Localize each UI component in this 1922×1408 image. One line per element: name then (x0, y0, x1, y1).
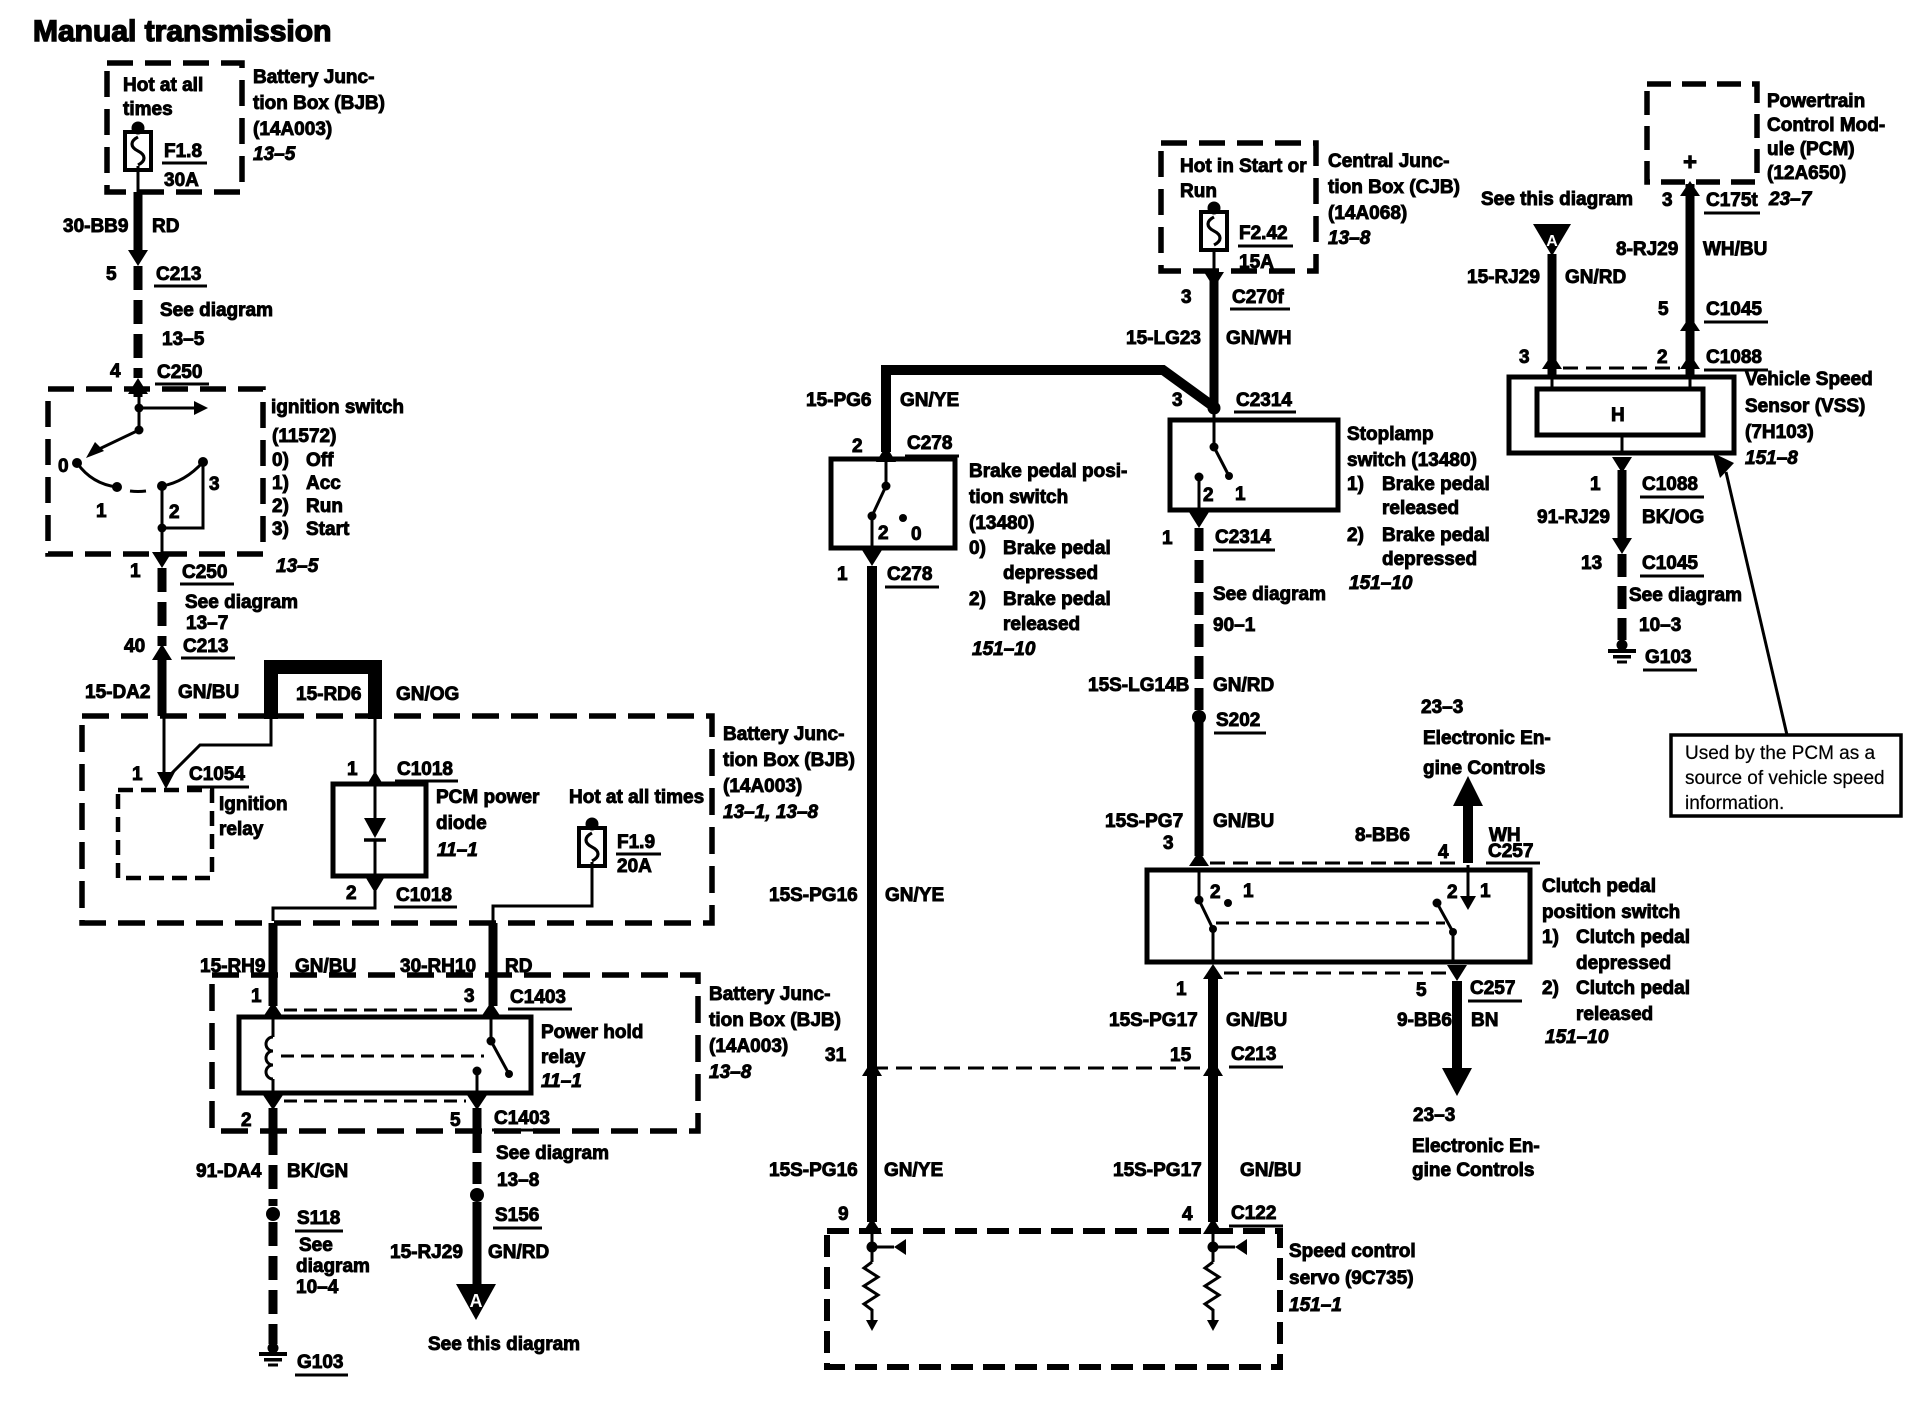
wire fuse lead (137, 166, 140, 192)
svg-text:Power hold: Power hold (541, 1022, 643, 1043)
node A off-page triangle (1533, 224, 1571, 256)
wire fuse F1.9 out to 30-RH10 (493, 862, 592, 921)
svg-text:C278: C278 (887, 564, 932, 585)
svg-text:C122: C122 (1231, 1203, 1276, 1224)
svg-text:Ignition: Ignition (219, 794, 288, 815)
svg-text:+: + (1683, 149, 1697, 176)
svg-text:GN/BU: GN/BU (1240, 1160, 1301, 1181)
wire 9-BB6 BN with down arrow (1452, 981, 1462, 1070)
wire 15-RH9 GN/BU thick (269, 923, 278, 1006)
connector C1403 pin 3 arrow (481, 1002, 501, 1017)
svg-text:15-RJ29: 15-RJ29 (1467, 267, 1540, 288)
svg-text:Start: Start (306, 519, 350, 540)
svg-text:switch (13480): switch (13480) (1347, 450, 1477, 471)
svg-text:15S-PG16: 15S-PG16 (769, 1160, 858, 1181)
wire 15-DA2 into relay coil (163, 716, 166, 778)
svg-text:3: 3 (464, 986, 475, 1007)
wire 15S-PG7 GN/BU (1195, 717, 1204, 856)
svg-text:position switch: position switch (1542, 902, 1680, 923)
svg-text:11–1: 11–1 (437, 840, 478, 861)
svg-text:13–8: 13–8 (709, 1062, 752, 1083)
node contact 3 (198, 457, 208, 467)
svg-text:5: 5 (450, 1110, 461, 1131)
svg-text:released: released (1576, 1004, 1653, 1025)
svg-text:GN/RD: GN/RD (1565, 267, 1626, 288)
svg-text:C2314: C2314 (1236, 390, 1292, 411)
svg-text:GN/RD: GN/RD (1213, 675, 1274, 696)
svg-text:3: 3 (1181, 287, 1192, 308)
note used by the PCM box (1671, 735, 1901, 816)
svg-text:GN/OG: GN/OG (396, 684, 459, 705)
svg-text:S118: S118 (297, 1208, 340, 1229)
svg-text:Speed control: Speed control (1289, 1241, 1416, 1262)
svg-text:1: 1 (132, 764, 143, 785)
svg-text:1: 1 (1480, 881, 1491, 902)
node contact 2 (157, 481, 167, 491)
svg-text:5: 5 (106, 264, 117, 285)
svg-text:released: released (1382, 498, 1459, 519)
wire arc dash 1-2 (130, 490, 146, 494)
wire arc 2 to 3 (162, 462, 203, 486)
svg-text:Electronic En-: Electronic En- (1412, 1136, 1540, 1157)
svg-text:2: 2 (852, 436, 863, 457)
wire dashed link pins 1-3 (284, 1009, 478, 1012)
connector C250 pin 4 arrow (128, 378, 148, 394)
svg-text:0: 0 (58, 456, 69, 477)
svg-text:Used by the PCM as a: Used by the PCM as a (1685, 743, 1876, 764)
connector C175t pin 3 arrow (1680, 181, 1700, 196)
wire diode out to 15-RH9 (273, 891, 375, 921)
wire dashed actuation line (281, 1055, 484, 1058)
svg-text:GN/YE: GN/YE (885, 885, 944, 906)
svg-text:2: 2 (878, 523, 889, 544)
svg-text:15-LG23: 15-LG23 (1126, 328, 1201, 349)
node contact 1 (112, 482, 122, 492)
svg-text:9-BB6: 9-BB6 (1397, 1010, 1452, 1031)
svg-text:See diagram: See diagram (496, 1143, 609, 1164)
svg-text:gine Controls: gine Controls (1423, 758, 1545, 779)
svg-text:BN: BN (1471, 1010, 1498, 1031)
powertrain control module PCM dashed box (1647, 84, 1757, 182)
svg-text:15S-PG16: 15S-PG16 (769, 885, 858, 906)
wire 8-BB6 WH with up arrow (1463, 804, 1473, 863)
svg-text:8-RJ29: 8-RJ29 (1616, 239, 1678, 260)
svg-text:15S-LG14B: 15S-LG14B (1088, 675, 1189, 696)
svg-text:See this diagram: See this diagram (428, 1334, 580, 1355)
svg-text:S202: S202 (1216, 710, 1260, 731)
svg-text:Central Junc-: Central Junc- (1328, 151, 1449, 172)
svg-text:23–7: 23–7 (1768, 189, 1813, 210)
svg-text:C1088: C1088 (1642, 474, 1698, 495)
connector C250 pin 1 arrow (152, 552, 172, 568)
relay K ignition relay dashed box (118, 790, 212, 878)
wire to G103 dashed (1618, 554, 1627, 640)
node junction C2314 pin 3 (1208, 402, 1221, 415)
svg-text:1: 1 (130, 561, 141, 582)
node contact 0 (72, 458, 82, 468)
svg-text:4: 4 (1182, 1204, 1193, 1225)
connector C257 pin 1 arrow (1203, 964, 1223, 979)
wire dashed C250 to C213 (158, 568, 167, 646)
svg-text:C1045: C1045 (1642, 553, 1698, 574)
svg-text:15: 15 (1170, 1045, 1192, 1066)
wire contact 2 down (161, 486, 164, 528)
svg-text:2: 2 (346, 883, 357, 904)
battery junction box BJB (Hot at all times) dashed box (107, 63, 242, 192)
svg-text:depressed: depressed (1576, 953, 1671, 974)
wire ignition switch branch arrow right (139, 407, 194, 410)
svg-text:3: 3 (209, 474, 220, 495)
wire 15-LG23 GN/WH (1210, 271, 1219, 406)
svg-text:C213: C213 (183, 636, 228, 657)
svg-text:151–8: 151–8 (1745, 448, 1798, 469)
svg-text:(14A003): (14A003) (253, 119, 332, 140)
splice S202 (1192, 710, 1206, 724)
svg-text:S156: S156 (495, 1205, 539, 1226)
fuse F1.9 20A (579, 818, 605, 867)
svg-text:C1018: C1018 (397, 759, 453, 780)
svg-text:diode: diode (436, 813, 487, 834)
svg-text:3: 3 (1519, 347, 1530, 368)
svg-text:(14A003): (14A003) (709, 1036, 788, 1057)
svg-text:1): 1) (1542, 927, 1559, 948)
svg-text:Control Mod-: Control Mod- (1767, 115, 1885, 136)
resistor right servo coil (1205, 1262, 1219, 1322)
svg-text:(14A068): (14A068) (1328, 203, 1407, 224)
svg-text:Brake pedal posi-: Brake pedal posi- (969, 461, 1127, 482)
svg-text:13–5: 13–5 (162, 329, 205, 350)
wire switch output (161, 528, 164, 554)
connector C270f pin 3 arrow (1204, 272, 1224, 288)
svg-text:Manual transmission: Manual transmission (33, 15, 331, 48)
svg-text:15-RD6: 15-RD6 (296, 684, 361, 705)
svg-text:Sensor (VSS): Sensor (VSS) (1745, 396, 1865, 417)
svg-text:2: 2 (1203, 485, 1214, 506)
svg-text:5: 5 (1658, 299, 1669, 320)
wire from 15-RD6 leg to C1054 (167, 719, 271, 778)
connector C257 pin 5 arrow (1447, 965, 1467, 981)
svg-text:3: 3 (1163, 833, 1174, 854)
svg-text:1): 1) (272, 473, 289, 494)
ignition switch (11572) dashed box (48, 389, 263, 554)
svg-text:91-DA4: 91-DA4 (196, 1161, 262, 1182)
svg-text:15S-PG7: 15S-PG7 (1105, 811, 1183, 832)
node A off-page arrow (456, 1284, 496, 1320)
svg-text:diagram: diagram (296, 1256, 370, 1277)
wire dashed link pins 2-5 (284, 1100, 466, 1103)
svg-text:91-RJ29: 91-RJ29 (1537, 507, 1610, 528)
servo left solenoid branch (871, 1234, 874, 1262)
svg-text:2): 2) (1542, 978, 1559, 999)
svg-text:C2314: C2314 (1215, 527, 1271, 548)
svg-text:See diagram: See diagram (185, 592, 298, 613)
svg-text:1: 1 (1235, 484, 1246, 505)
svg-text:5: 5 (1416, 980, 1427, 1001)
svg-text:See diagram: See diagram (1213, 584, 1326, 605)
svg-text:tion Box (BJB): tion Box (BJB) (253, 93, 385, 114)
battery junction box BJB (14A003) 13-1,13-8 dashed box (82, 716, 712, 923)
svg-text:3: 3 (1662, 190, 1673, 211)
svg-text:4: 4 (1438, 842, 1449, 863)
svg-text:GN/RD: GN/RD (488, 1242, 549, 1263)
connector C278 pin 2 arrow (876, 446, 896, 462)
svg-text:90–1: 90–1 (1213, 615, 1256, 636)
wire 30-BB9 RD thick (134, 192, 143, 252)
wire 91-RJ29 BK/OG (1618, 470, 1627, 538)
ground G103 right (1608, 640, 1636, 664)
svg-text:1: 1 (837, 564, 848, 585)
svg-text:13–5: 13–5 (253, 144, 296, 165)
svg-text:(14A003): (14A003) (723, 776, 802, 797)
svg-text:Hot at all: Hot at all (123, 75, 203, 96)
wire 15-DA2 GN/BU (158, 658, 167, 716)
svg-text:151–10: 151–10 (972, 639, 1036, 660)
svg-text:11–1: 11–1 (541, 1071, 582, 1092)
svg-text:3): 3) (272, 519, 289, 540)
svg-text:151–10: 151–10 (1545, 1027, 1609, 1048)
svg-text:9: 9 (838, 1204, 849, 1225)
connector C213 pin 40 arrow (152, 644, 172, 660)
svg-text:40: 40 (124, 636, 145, 657)
splice S118 (266, 1207, 280, 1221)
svg-text:Brake pedal: Brake pedal (1382, 525, 1490, 546)
wire ignition switch feed (138, 392, 141, 430)
fuse F1.8 30A (125, 122, 151, 171)
svg-text:relay: relay (541, 1047, 586, 1068)
svg-text:C257: C257 (1488, 841, 1533, 862)
svg-text:WH/BU: WH/BU (1703, 239, 1767, 260)
ground G103 (259, 1343, 287, 1367)
connector C1045 pin 13 arrow (1612, 538, 1632, 554)
svg-text:15S-PG17: 15S-PG17 (1109, 1010, 1198, 1031)
wire 15S-PG16 GN/YE long vertical (867, 566, 877, 1222)
wire 91-DA4 BK/GN dashed (269, 1131, 278, 1206)
svg-text:15A: 15A (1239, 252, 1274, 273)
svg-text:Run: Run (1180, 181, 1217, 202)
wire to diode pin 1 (374, 719, 377, 784)
connector C278 pin 1 arrow (862, 550, 882, 566)
svg-text:GN/BU: GN/BU (178, 682, 239, 703)
svg-text:23–3: 23–3 (1413, 1105, 1455, 1126)
connector C213 pin 5 arrow (128, 250, 148, 266)
svg-text:See diagram: See diagram (160, 300, 273, 321)
svg-text:13–7: 13–7 (186, 613, 228, 634)
svg-text:tion switch: tion switch (969, 487, 1068, 508)
svg-text:0): 0) (969, 538, 986, 559)
svg-text:C213: C213 (156, 264, 201, 285)
wire dashed link C1088 pins (1563, 367, 1680, 370)
switch brake pedal position switch box (831, 459, 955, 548)
svg-text:RD: RD (152, 216, 179, 237)
svg-text:0: 0 (911, 524, 922, 545)
svg-text:tion Box (BJB): tion Box (BJB) (709, 1010, 841, 1031)
svg-text:F2.42: F2.42 (1239, 223, 1288, 244)
svg-text:0): 0) (272, 450, 289, 471)
wire note pointer arrow to VSS (1726, 472, 1787, 735)
coil of power hold relay (272, 1017, 275, 1037)
svg-text:C1088: C1088 (1706, 347, 1762, 368)
svg-text:Off: Off (306, 450, 334, 471)
svg-text:C257: C257 (1470, 978, 1515, 999)
svg-text:Clutch pedal: Clutch pedal (1542, 876, 1656, 897)
svg-text:servo (9C735): servo (9C735) (1289, 1268, 1414, 1289)
svg-text:times: times (123, 99, 173, 120)
svg-text:F1.8: F1.8 (164, 141, 202, 162)
svg-text:Run: Run (306, 496, 343, 517)
wire VSS output (1621, 435, 1624, 455)
wire 15S-PG17 GN/BU (1208, 979, 1218, 1222)
svg-text:C1403: C1403 (494, 1108, 550, 1129)
svg-text:8-BB6: 8-BB6 (1355, 825, 1410, 846)
svg-text:(7H103): (7H103) (1745, 422, 1814, 443)
connector C1018 pin 1 arrow (366, 771, 384, 786)
svg-text:23–3: 23–3 (1421, 697, 1463, 718)
svg-text:2): 2) (272, 496, 289, 517)
svg-text:30A: 30A (164, 170, 199, 191)
svg-text:1): 1) (1347, 474, 1364, 495)
svg-text:151–1: 151–1 (1289, 1295, 1342, 1316)
svg-text:See diagram: See diagram (1629, 585, 1742, 606)
wire arc 0 to 1 (77, 463, 117, 487)
svg-text:2: 2 (1210, 882, 1221, 903)
svg-text:20A: 20A (617, 856, 652, 877)
svg-text:1: 1 (96, 501, 107, 522)
svg-text:C1045: C1045 (1706, 299, 1762, 320)
svg-text:Hot at all times: Hot at all times (569, 787, 704, 808)
svg-text:Vehicle Speed: Vehicle Speed (1745, 369, 1873, 390)
svg-text:H: H (1611, 405, 1625, 426)
svg-text:GN/YE: GN/YE (900, 390, 959, 411)
svg-text:1: 1 (251, 986, 262, 1007)
connector C1054 pin 1 arrow (157, 772, 175, 789)
svg-text:BK/OG: BK/OG (1642, 507, 1704, 528)
connector C1018 pin 2 arrow (366, 878, 384, 893)
svg-text:G103: G103 (297, 1352, 343, 1373)
connector C1403 pin 2 arrow (263, 1095, 283, 1110)
svg-text:1: 1 (1590, 474, 1601, 495)
svg-text:Battery Junc-: Battery Junc- (723, 724, 844, 745)
switch stoplamp switch box (1170, 420, 1338, 510)
svg-text:A: A (1546, 233, 1558, 250)
wire ignition switch wiper (95, 430, 139, 451)
svg-text:15S-PG17: 15S-PG17 (1113, 1160, 1202, 1181)
connector C122 pin 4 arrow (1203, 1218, 1223, 1234)
svg-text:30-BB9: 30-BB9 (63, 216, 128, 237)
wire 15-RJ29 GN/RD right (1548, 254, 1557, 377)
svg-text:GN/BU: GN/BU (1213, 811, 1274, 832)
connector C1045 pin 5 arrow (1680, 316, 1700, 331)
node junction 31 / 15 C213 dashed link (862, 1060, 882, 1076)
svg-text:3: 3 (1172, 390, 1183, 411)
wire 15-RJ29 GN/RD (473, 1202, 482, 1286)
connector C257 pin 3 arrow (1189, 851, 1209, 866)
connector C1088 pin 1 arrow (1612, 457, 1632, 473)
svg-text:2: 2 (1657, 347, 1668, 368)
connector C1088 pin 3 arrow (1542, 354, 1562, 369)
svg-text:Brake pedal: Brake pedal (1003, 589, 1111, 610)
svg-text:tion Box (CJB): tion Box (CJB) (1328, 177, 1460, 198)
svg-text:1: 1 (1162, 528, 1173, 549)
svg-text:1: 1 (1243, 881, 1254, 902)
svg-text:(12A650): (12A650) (1767, 163, 1846, 184)
svg-text:GN/WH: GN/WH (1226, 328, 1291, 349)
svg-text:gine Controls: gine Controls (1412, 1160, 1534, 1181)
svg-text:10–3: 10–3 (1639, 615, 1681, 636)
wire 15-PG6 GN/YE horizontal run (886, 370, 1214, 452)
connector C122 pin 9 arrow (862, 1218, 882, 1234)
svg-text:C175t: C175t (1706, 190, 1758, 211)
diode CR1 PCM power diode box (333, 784, 426, 876)
svg-text:F1.9: F1.9 (617, 832, 655, 853)
battery junction box BJB (14A003) 13-8 dashed box (power hold relay) (212, 975, 698, 1131)
svg-text:C213: C213 (1231, 1044, 1276, 1065)
svg-text:2: 2 (1447, 882, 1458, 903)
svg-text:13–5: 13–5 (276, 556, 319, 577)
wire dashed to C250 (134, 266, 143, 378)
wire 30-RH10 RD thick (489, 923, 498, 1006)
svg-text:1: 1 (347, 759, 358, 780)
svg-text:Clutch pedal: Clutch pedal (1576, 927, 1690, 948)
svg-text:C1054: C1054 (189, 764, 245, 785)
splice S156 (470, 1188, 484, 1202)
svg-text:31: 31 (825, 1045, 847, 1066)
svg-text:2): 2) (1347, 525, 1364, 546)
svg-text:(11572): (11572) (272, 426, 336, 447)
wire pin2 down / pin5 down (269, 1108, 278, 1131)
svg-text:relay: relay (219, 819, 264, 840)
fuse F2.42 15A (1201, 202, 1227, 251)
svg-text:C250: C250 (182, 562, 227, 583)
svg-text:C278: C278 (907, 433, 952, 454)
svg-text:depressed: depressed (1382, 549, 1477, 570)
svg-text:2): 2) (969, 589, 986, 610)
wire 15S-LG14B GN/RD dashed (1195, 528, 1204, 710)
resistor left servo coil (864, 1262, 878, 1322)
svg-text:C1403: C1403 (510, 987, 566, 1008)
svg-text:C250: C250 (157, 362, 202, 383)
svg-text:13–1, 13–8: 13–1, 13–8 (723, 802, 819, 823)
speed control servo (9C735) dashed box (827, 1231, 1280, 1367)
wire 15-RD6 GN/OG thick U loop (271, 667, 375, 719)
svg-text:15-DA2: 15-DA2 (85, 682, 150, 703)
wire pin5 to S156 dashed (473, 1131, 482, 1188)
relay power hold relay box (239, 1017, 531, 1093)
connector C2314 pin 1 arrow (1189, 512, 1209, 528)
svg-text:source of vehicle speed: source of vehicle speed (1685, 768, 1885, 789)
switch clutch pedal position switch box (1147, 870, 1530, 962)
svg-text:Battery Junc-: Battery Junc- (709, 984, 830, 1005)
svg-text:(13480): (13480) (969, 513, 1035, 534)
svg-text:GN/YE: GN/YE (884, 1160, 943, 1181)
svg-text:151–10: 151–10 (1349, 573, 1413, 594)
svg-text:10–4: 10–4 (296, 1277, 339, 1298)
svg-text:tion Box (BJB): tion Box (BJB) (723, 750, 855, 771)
svg-text:C1018: C1018 (396, 885, 452, 906)
vehicle speed sensor VSS box (1509, 377, 1734, 453)
svg-text:15-PG6: 15-PG6 (806, 390, 871, 411)
wire fuse lead to C270f (1213, 250, 1216, 271)
svg-text:ule (PCM): ule (PCM) (1767, 139, 1855, 160)
svg-text:BK/GN: BK/GN (287, 1161, 348, 1182)
svg-text:released: released (1003, 614, 1080, 635)
connector C1403 pin 5 arrow (467, 1095, 487, 1110)
svg-text:G103: G103 (1645, 647, 1691, 668)
svg-text:2: 2 (241, 1110, 252, 1131)
svg-text:A: A (470, 1291, 483, 1311)
svg-text:Electronic En-: Electronic En- (1423, 728, 1551, 749)
wire contact 3 down (162, 462, 203, 528)
svg-text:Powertrain: Powertrain (1767, 91, 1865, 112)
